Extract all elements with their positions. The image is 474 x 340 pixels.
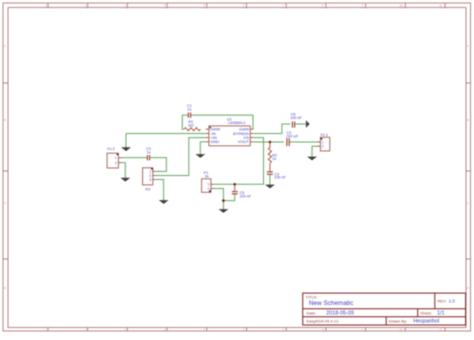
- connector X1-2: [107, 147, 122, 168]
- wire C5 bottom to ground: [223, 194, 234, 200]
- svg-text:Drawn By:: Drawn By:: [389, 319, 407, 324]
- wire: [125, 134, 127, 148]
- wire R3 pin3 to ground: [155, 180, 163, 201]
- capacitor C6: [292, 122, 294, 128]
- svg-text:D: D: [4, 286, 6, 290]
- svg-text:2018-05-09: 2018-05-09: [326, 310, 354, 316]
- ground: [307, 157, 317, 161]
- ground (right-pointing): [306, 120, 310, 128]
- svg-text:100 nF: 100 nF: [274, 176, 286, 180]
- wire C2 to X1-1: [290, 141, 317, 143]
- wire gain loop top: [191, 115, 253, 129]
- svg-text:VOUT: VOUT: [238, 139, 250, 144]
- svg-text:Sheet:: Sheet:: [420, 310, 432, 315]
- ground: [265, 185, 275, 189]
- svg-text:220 UF: 220 UF: [286, 135, 299, 139]
- connector P1: [202, 171, 214, 192]
- op-amp U1: [206, 118, 254, 146]
- svg-text:TITLE:: TITLE:: [306, 295, 318, 300]
- wire VS net: [214, 138, 264, 185]
- ground: [195, 154, 205, 158]
- svg-text:100 nF: 100 nF: [240, 195, 252, 199]
- svg-text:1k: 1k: [272, 157, 276, 161]
- svg-text:3: 3: [149, 178, 151, 182]
- svg-text:1u: 1u: [147, 151, 151, 155]
- svg-text:X1-2: X1-2: [107, 147, 115, 151]
- ground: [120, 178, 130, 182]
- svg-text:REV:: REV:: [438, 299, 447, 304]
- svg-text:R3: R3: [146, 187, 151, 191]
- potentiometer R3: [143, 168, 156, 192]
- ground: [121, 147, 131, 151]
- svg-text:1/1: 1/1: [437, 310, 445, 316]
- svg-text:X1-1: X1-1: [320, 133, 328, 137]
- svg-text:A: A: [467, 44, 469, 48]
- svg-text:LM386N-3: LM386N-3: [228, 121, 245, 125]
- svg-text:Hespanhol: Hespanhol: [413, 319, 439, 325]
- svg-text:2: 2: [322, 145, 324, 149]
- capacitor C3: [147, 155, 149, 160]
- svg-text:D: D: [467, 286, 469, 290]
- svg-text:1.0: 1.0: [449, 299, 456, 304]
- wire C3 to R3 top: [150, 158, 166, 172]
- connector X1-1: [317, 133, 330, 151]
- svg-text:100 nF: 100 nF: [290, 116, 302, 120]
- node GND junction: [222, 199, 225, 202]
- svg-text:C: C: [467, 201, 469, 205]
- wire C4 to ground: [269, 175, 271, 185]
- svg-text:Date:: Date:: [307, 310, 317, 315]
- svg-text:2: 2: [208, 187, 210, 191]
- capacitor C1: [188, 112, 190, 117]
- svg-text:New Schematic: New Schematic: [309, 300, 354, 307]
- svg-text:C: C: [4, 201, 6, 205]
- svg-text:A: A: [4, 44, 6, 48]
- svg-text:GND: GND: [210, 139, 219, 144]
- wire P1 pin2: [214, 189, 224, 210]
- wire -IN net: [126, 133, 206, 135]
- resistor R1: [184, 128, 201, 131]
- node VS/C5 junction: [233, 183, 236, 186]
- wire gain loop left: [182, 115, 188, 129]
- node VOUT junction: [269, 141, 272, 144]
- title block: [303, 293, 466, 325]
- svg-text:EasyEDA V5.4.12: EasyEDA V5.4.12: [307, 319, 340, 324]
- svg-text:B: B: [4, 118, 6, 122]
- wire X1-2 pin1 to C3: [122, 157, 147, 159]
- resistor R2: [269, 142, 271, 148]
- svg-text:1u: 1u: [187, 108, 191, 112]
- wire VOUT net: [253, 141, 284, 143]
- svg-text:B: B: [467, 118, 469, 122]
- capacitor C4: [267, 172, 273, 174]
- svg-text:1k2: 1k2: [188, 124, 194, 128]
- capacitor C2: [287, 138, 289, 146]
- wire U1 GND: [200, 142, 206, 155]
- wire X1-2 pin2 to ground: [122, 163, 126, 179]
- svg-text:2: 2: [115, 161, 117, 165]
- capacitor C5: [234, 184, 236, 191]
- svg-text:1: 1: [115, 156, 117, 160]
- svg-text:9v: 9v: [205, 175, 209, 179]
- wire X1-1 pin2 to ground: [312, 146, 317, 157]
- ground: [159, 200, 169, 204]
- wire +IN net: [155, 138, 206, 176]
- wire C6 to ground: [295, 123, 306, 125]
- ground: [219, 209, 229, 213]
- wire BYPASS net: [253, 124, 290, 134]
